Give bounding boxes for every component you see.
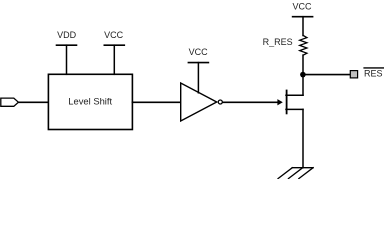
svg-text:RES: RES bbox=[364, 69, 383, 79]
wire inverter to transistor gate bbox=[223, 101, 278, 103]
wire VDD stub bbox=[66, 45, 68, 74]
wire VCC stub (Level Shift) bbox=[113, 45, 115, 74]
wire node to port RES bbox=[303, 74, 350, 76]
power VCC (inverter) bbox=[188, 47, 208, 63]
power VCC (Level Shift) bbox=[104, 30, 124, 45]
resistor R_RES bbox=[263, 17, 307, 75]
wire source to ground bbox=[302, 109, 304, 167]
Level Shift block U1 bbox=[48, 74, 132, 129]
svg-text:VCC: VCC bbox=[104, 30, 124, 40]
svg-text:Level Shift: Level Shift bbox=[68, 96, 112, 107]
transistor Q1 bbox=[278, 91, 303, 114]
power VCC (top right) bbox=[292, 1, 312, 16]
inverter U2 bbox=[181, 83, 223, 121]
svg-text:VDD: VDD bbox=[57, 30, 77, 40]
wire VCC stub (inverter) bbox=[197, 63, 199, 93]
input pin bbox=[1, 98, 19, 106]
label RES with overline bbox=[364, 68, 383, 79]
wire Level Shift to inverter bbox=[132, 101, 180, 103]
svg-text:VCC: VCC bbox=[189, 47, 209, 57]
wire drain to node bbox=[302, 75, 304, 96]
port RES (square pad) bbox=[350, 71, 357, 78]
power VDD bbox=[57, 30, 77, 45]
ground bbox=[278, 168, 313, 179]
svg-text:VCC: VCC bbox=[292, 1, 312, 11]
wire pin to Level Shift bbox=[18, 101, 48, 103]
svg-text:R_RES: R_RES bbox=[263, 37, 293, 47]
junction node bbox=[300, 72, 306, 78]
